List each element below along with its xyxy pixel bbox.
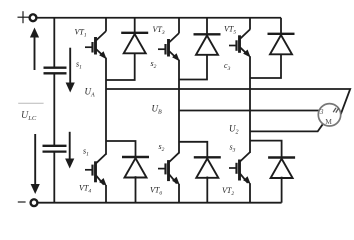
wire D2l bottom [281,177,283,203]
wire phase B output [179,110,322,112]
wire leg3 bottom [249,183,251,203]
minus sign [18,201,26,203]
plus sign [18,16,29,18]
transistor VT1 [85,31,106,58]
diode D2l [268,158,295,179]
diode D2u [194,34,221,55]
wire D4 bottom [135,176,137,203]
wire D2u top [206,18,208,35]
diode D3u [268,34,295,55]
negative terminal [31,199,38,206]
diode D4 [122,157,149,178]
wire phase A output [106,89,350,117]
transistor VT6 [158,153,179,184]
top DC bus wire [37,17,281,19]
diode D1 [121,33,148,54]
svg-text:M: M [325,117,332,126]
diode D6 [194,157,221,178]
wire leg3 top [249,18,251,30]
wire leg1 top [105,18,107,31]
wire D2u anode elbow [179,55,207,79]
wire leg1 bottom [105,185,107,203]
positive terminal [30,14,37,21]
wire D6 bottom [206,177,208,203]
return current arrow (down) [31,134,40,194]
bottom DC bus wire [38,202,282,204]
wire D2l cathode elbow [250,141,282,158]
wire leg2 bottom [178,184,180,203]
wire D3u anode elbow [250,55,281,78]
transistor VT5 [229,29,250,56]
wire leg1 middle [105,58,107,155]
svg-text:3: 3 [319,107,324,116]
wire D4 cathode elbow [106,141,136,157]
wire D6 cathode elbow [179,142,207,158]
wire cap rail middle [53,74,55,145]
capacitor C1 [44,68,67,74]
wire leg2 middle [178,60,180,154]
wire D1 anode elbow [106,54,135,80]
transistor VT3 [158,33,179,60]
motor M [318,104,340,126]
wire cap rail upper [53,18,55,68]
capacitor C2 [43,146,67,152]
voltage arrow lower [65,132,74,169]
wire D3u top [280,18,282,34]
wire phase C output [250,123,324,131]
wire D1 top [134,18,136,33]
input current arrow (up) [30,28,39,71]
wire cap rail lower [53,152,55,203]
voltage arrow upper (U_A) [66,48,75,93]
wire leg2 top [178,18,180,33]
wire leg3 middle [249,56,251,153]
transistor VT4 [85,154,106,185]
label U_LC [18,103,43,122]
transistor VT2 [229,152,250,183]
